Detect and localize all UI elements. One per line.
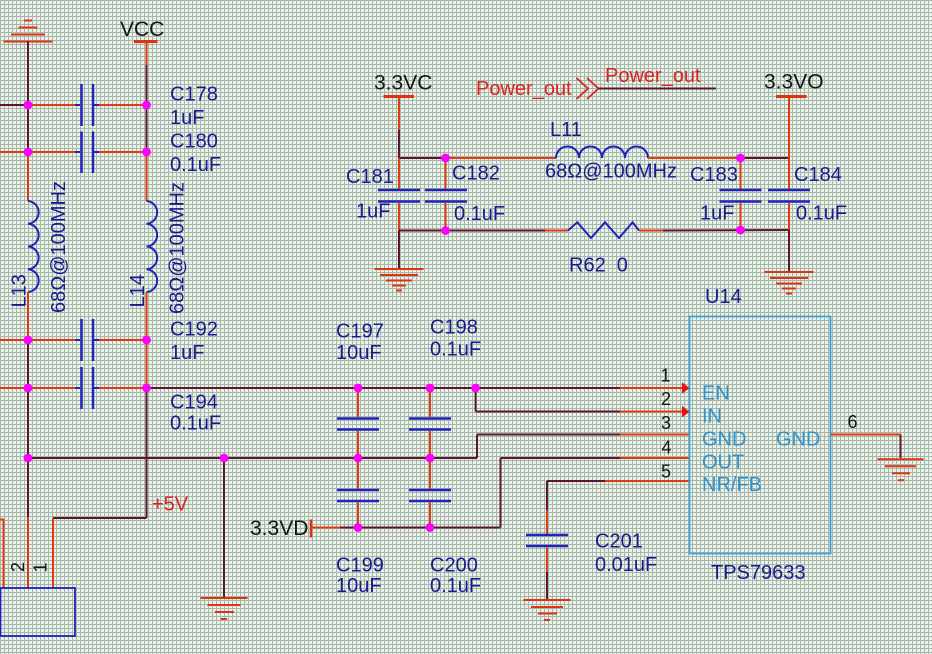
wire NR/FB pin row bright xyxy=(605,480,690,482)
label C194 0.1uF xyxy=(170,392,221,435)
ground (under C201) xyxy=(524,600,571,620)
svg-text:2: 2 xyxy=(8,562,28,572)
wire EN row main xyxy=(147,387,621,389)
svg-text:C199: C199 xyxy=(336,555,384,577)
svg-text:6: 6 xyxy=(848,412,858,432)
label C182 0.1uF xyxy=(452,163,505,226)
wire +5V horizontal xyxy=(53,517,147,519)
svg-text:4: 4 xyxy=(661,438,671,458)
resistor R62 xyxy=(568,222,639,238)
svg-text:3.3VO: 3.3VO xyxy=(764,71,824,94)
inductor L14 xyxy=(147,201,158,292)
wire row230 bright left xyxy=(545,230,568,232)
wire 3.3VC stem bright xyxy=(398,97,400,131)
inductor L13 xyxy=(28,201,39,292)
wire v146 row340-row388 xyxy=(146,340,148,388)
capacitor C182 xyxy=(425,158,467,231)
wire row158 a xyxy=(399,157,446,159)
ground (under C181) xyxy=(375,269,424,291)
wire v28 to connector xyxy=(27,517,29,588)
wire v28 row105-row152 xyxy=(27,105,29,152)
wire pin6 drop xyxy=(900,435,902,459)
svg-text:VCC: VCC xyxy=(120,18,164,41)
svg-text:1uF: 1uF xyxy=(356,201,390,223)
capacitor C181 xyxy=(378,158,420,231)
wire v146 row105-row152 xyxy=(146,105,148,152)
svg-text:0.1uF: 0.1uF xyxy=(454,203,505,225)
svg-text:3.3VD: 3.3VD xyxy=(250,517,308,540)
wire 3.3VD row bright xyxy=(311,527,340,529)
wire 3.3VC ground stem xyxy=(398,231,400,269)
svg-text:C201: C201 xyxy=(595,531,643,553)
capacitor C198 xyxy=(409,388,451,458)
svg-text:2: 2 xyxy=(661,389,671,409)
ground (top-left) xyxy=(4,21,53,42)
wire edge corner xyxy=(0,520,4,589)
label C198 0.1uF xyxy=(430,317,481,361)
wire 3.3VC stem dark xyxy=(398,130,400,158)
wire row340 segment b xyxy=(99,339,147,341)
label C183 1uF xyxy=(690,164,738,225)
ground (under C184) xyxy=(765,272,814,294)
op-amp U14 box xyxy=(690,317,831,554)
svg-text:3.3VC: 3.3VC xyxy=(374,72,432,95)
wire v146 +5V drop xyxy=(146,388,148,518)
svg-text:C178: C178 xyxy=(170,84,218,106)
wire row230 b xyxy=(663,229,789,232)
wire v28 row152-coil xyxy=(27,152,29,201)
wire pin2 drop xyxy=(475,388,477,412)
wire OUT pin row bright xyxy=(620,457,690,459)
power terminal 3.3VO xyxy=(776,95,807,98)
label C197 10uF xyxy=(336,321,384,365)
svg-text:C197: C197 xyxy=(336,321,384,343)
svg-text:68Ω@100MHz: 68Ω@100MHz xyxy=(167,182,189,314)
label C178 1uF C180 0.1uF xyxy=(170,84,221,177)
svg-text:10uF: 10uF xyxy=(336,575,382,597)
wire 3.3VD row xyxy=(340,527,501,529)
wire OUT pin row xyxy=(501,457,621,459)
wire NR/FB pin row xyxy=(547,480,605,482)
wire v28 coil-row340 xyxy=(27,292,29,340)
wire GND pin row bright xyxy=(620,434,690,436)
wire v146 coil-row340 xyxy=(146,292,148,340)
wire row105 segment b xyxy=(99,104,147,106)
capacitor C201 xyxy=(526,535,568,599)
svg-text:10uF: 10uF xyxy=(336,342,382,364)
wire row105 left xyxy=(0,104,28,106)
wire NR/FB drop dark xyxy=(546,481,548,510)
capacitor C199 xyxy=(337,458,379,528)
svg-text:IN: IN xyxy=(702,406,722,428)
capacitor C178 xyxy=(75,84,99,126)
svg-text:C198: C198 xyxy=(430,317,478,339)
svg-text:0.1uF: 0.1uF xyxy=(170,154,221,176)
svg-text:C184: C184 xyxy=(794,164,842,186)
capacitor C184 xyxy=(768,97,810,231)
svg-text:Power_out: Power_out xyxy=(605,65,701,87)
svg-text:C181: C181 xyxy=(346,166,394,188)
pin 1 arrow xyxy=(682,382,690,394)
terminal Power_out chevrons xyxy=(577,78,599,99)
wire ground stem to row105 xyxy=(27,42,29,106)
wire pin2 row bright xyxy=(620,411,682,413)
svg-text:NR/FB: NR/FB xyxy=(702,474,762,496)
wire row158 b xyxy=(446,157,557,159)
svg-text:1uF: 1uF xyxy=(170,342,204,364)
pin 2 arrow xyxy=(682,406,690,418)
wire row158 d xyxy=(741,157,790,159)
svg-text:68Ω@100MHz: 68Ω@100MHz xyxy=(545,161,677,183)
wire pin6 row xyxy=(831,434,901,436)
wire +5V down to connector xyxy=(52,518,54,588)
wire OUT drop to 3.3VD row xyxy=(500,458,502,528)
label C184 0.1uF xyxy=(794,164,847,225)
svg-text:Power_out: Power_out xyxy=(476,78,572,100)
wire v28 row458-corner xyxy=(27,458,29,517)
svg-text:OUT: OUT xyxy=(702,452,744,474)
label C200 0.1uF xyxy=(430,555,481,598)
svg-text:GND: GND xyxy=(776,429,820,451)
svg-text:1uF: 1uF xyxy=(700,203,734,225)
svg-text:1uF: 1uF xyxy=(170,107,204,129)
connector box xyxy=(1,588,76,636)
wire row152 left xyxy=(0,151,75,153)
capacitor C180 xyxy=(75,132,99,174)
svg-text:0.01uF: 0.01uF xyxy=(595,554,657,576)
svg-text:C182: C182 xyxy=(452,163,500,185)
wire row158 c xyxy=(648,157,741,159)
svg-text:C180: C180 xyxy=(170,131,218,153)
wire pin2 row xyxy=(476,411,620,413)
power terminal 3.3VC xyxy=(384,95,415,98)
svg-text:C194: C194 xyxy=(170,392,218,414)
capacitor C192 xyxy=(75,319,99,361)
wire v146 row152-coil xyxy=(146,152,148,201)
wire jog up to GND pin row xyxy=(476,435,478,459)
power terminal VCC xyxy=(134,40,158,43)
wire row230 a xyxy=(399,230,545,232)
label C192 1uF xyxy=(170,319,218,365)
svg-text:0.1uF: 0.1uF xyxy=(170,413,221,435)
capacitor C197 xyxy=(337,388,379,458)
svg-text:R62 0: R62 0 xyxy=(569,255,628,277)
svg-text:1: 1 xyxy=(31,562,51,572)
svg-text:0.1uF: 0.1uF xyxy=(430,575,481,597)
wire NR/FB drop bright xyxy=(546,510,548,534)
wire v28 row388-row458 xyxy=(27,388,29,458)
svg-text:5: 5 xyxy=(661,462,671,482)
label C201 0.01uF xyxy=(595,531,657,577)
wire row230 bright right xyxy=(639,230,663,232)
wire OUT-left row (GND net) xyxy=(28,457,477,459)
wire row388 left xyxy=(0,387,75,389)
wire 3.3VO ground stem xyxy=(788,230,790,272)
wire VCC stem lower xyxy=(146,65,148,105)
capacitor C200 xyxy=(409,458,451,528)
capacitor C194 xyxy=(75,367,99,409)
svg-text:+5V: +5V xyxy=(152,494,189,516)
wire row105 segment a xyxy=(28,104,75,106)
wire GND pin row xyxy=(477,434,620,436)
capacitor C183 xyxy=(720,158,762,230)
wire EN row bright xyxy=(620,387,682,389)
wire row340 left xyxy=(0,339,75,341)
ground (bottom-left) xyxy=(201,598,248,619)
power terminal 3.3VD xyxy=(310,520,313,538)
label C181 1uF xyxy=(346,166,394,223)
wire row388 segment b xyxy=(99,387,147,389)
inductor L11 xyxy=(556,147,648,159)
svg-text:C200: C200 xyxy=(430,555,478,577)
svg-text:U14: U14 xyxy=(705,286,742,308)
svg-text:0.1uF: 0.1uF xyxy=(796,203,847,225)
svg-text:EN: EN xyxy=(702,383,730,405)
svg-text:TPS79633: TPS79633 xyxy=(711,562,806,584)
svg-text:C183: C183 xyxy=(690,164,738,186)
wire Power_out line xyxy=(599,88,717,90)
svg-text:C192: C192 xyxy=(170,319,218,341)
svg-text:3: 3 xyxy=(661,413,671,433)
wire v224 to ground xyxy=(223,458,225,597)
ground (pin6) xyxy=(878,459,924,480)
svg-text:1: 1 xyxy=(660,366,670,386)
svg-text:GND: GND xyxy=(702,429,746,451)
svg-text:68Ω@100MHz: 68Ω@100MHz xyxy=(48,181,70,313)
svg-text:0.1uF: 0.1uF xyxy=(430,339,481,361)
wire v28 row340-row388 xyxy=(27,340,29,388)
wire row152 segment b xyxy=(99,151,147,153)
svg-text:L11: L11 xyxy=(550,119,582,141)
label C199 10uF xyxy=(336,555,384,598)
